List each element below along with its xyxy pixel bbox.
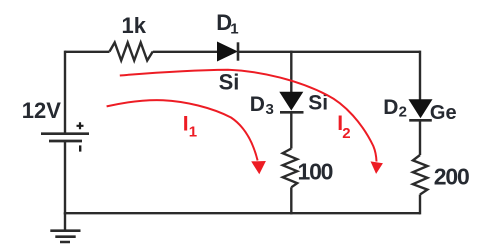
label 12V bbox=[22, 98, 61, 123]
resistor R100 zigzag bbox=[283, 149, 298, 188]
svg-text:12V: 12V bbox=[22, 98, 61, 123]
wire bottom horizontal bbox=[64, 212, 420, 214]
resistor R200 zigzag bbox=[413, 155, 428, 195]
svg-text:3: 3 bbox=[266, 101, 274, 118]
resistor R1 1k zigzag bbox=[110, 43, 153, 61]
svg-text:2: 2 bbox=[342, 125, 350, 142]
svg-text:100: 100 bbox=[298, 158, 333, 184]
current loop I2 arrowhead bbox=[371, 161, 383, 174]
svg-text:D: D bbox=[383, 96, 398, 119]
diode D1 cathode bar bbox=[237, 42, 240, 60]
wire middle branch between D3 and R100 bbox=[290, 112, 292, 148]
svg-text:Ge: Ge bbox=[430, 102, 457, 124]
wire right branch between D2 and R200 bbox=[419, 120, 421, 155]
battery minus tick bbox=[79, 145, 81, 151]
svg-text:200: 200 bbox=[434, 164, 469, 190]
svg-text:1: 1 bbox=[230, 20, 238, 37]
wire top-left horizontal from source to resistor 1k bbox=[65, 51, 110, 53]
wire middle branch upper (top wire to D3) bbox=[290, 51, 292, 93]
label D2 bbox=[383, 96, 407, 121]
wire between 1k and D1 bbox=[153, 51, 218, 53]
battery negative short plate bbox=[49, 140, 82, 143]
label D3 bbox=[250, 93, 274, 118]
svg-text:I: I bbox=[183, 113, 189, 136]
label D1 bbox=[216, 10, 238, 37]
current loop I2 red curve bbox=[120, 70, 377, 162]
svg-text:D: D bbox=[250, 93, 265, 116]
diode D2 cathode bar bbox=[409, 119, 432, 122]
diode D2 triangle bbox=[409, 100, 431, 118]
svg-text:2: 2 bbox=[399, 103, 407, 120]
ground symbol bbox=[50, 231, 80, 242]
svg-text:1: 1 bbox=[189, 124, 197, 141]
wire middle branch lower (R100 to bottom wire) bbox=[290, 187, 292, 214]
battery plus sign bbox=[77, 122, 84, 129]
battery positive long plate bbox=[41, 132, 89, 135]
label 1k bbox=[122, 13, 147, 38]
label 100 bbox=[298, 158, 333, 184]
svg-text:1k: 1k bbox=[122, 13, 147, 38]
svg-text:Si: Si bbox=[219, 70, 240, 95]
wire left vertical from battery to bottom corner bbox=[64, 141, 66, 214]
wire right branch upper (top wire to D2) bbox=[419, 51, 421, 100]
label I1 bbox=[183, 113, 197, 141]
label I2 bbox=[337, 112, 350, 142]
wire top right from D1 to right corner bbox=[239, 51, 420, 53]
label Si under D1 bbox=[219, 70, 240, 95]
label Ge right of D2 bbox=[430, 102, 457, 124]
diode D3 cathode bar bbox=[280, 111, 304, 114]
current loop I1 red curve bbox=[107, 100, 258, 160]
label 200 bbox=[434, 164, 469, 190]
wire left vertical from top corner to battery bbox=[64, 51, 66, 133]
diode D3 triangle bbox=[280, 92, 302, 109]
wire right branch lower (R200 to bottom corner) bbox=[419, 195, 421, 215]
wire ground stem bbox=[64, 213, 66, 230]
current loop I1 arrowhead bbox=[251, 161, 266, 174]
diode D1 triangle bbox=[218, 42, 237, 60]
label Si right of D3 bbox=[308, 92, 328, 115]
